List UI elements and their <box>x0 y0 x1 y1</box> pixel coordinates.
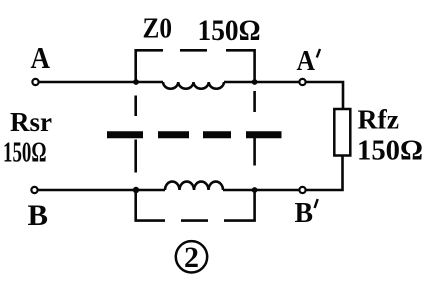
inductor L2 (bottom line of Z0 section) <box>165 182 223 190</box>
terminal B' <box>299 187 305 193</box>
node B' label <box>295 197 318 229</box>
terminal A' <box>299 79 305 85</box>
svg-text:150Ω: 150Ω <box>3 137 47 169</box>
svg-text:B: B <box>295 197 314 229</box>
svg-text:B: B <box>28 199 49 232</box>
terminal A <box>32 79 38 85</box>
svg-text:150Ω: 150Ω <box>357 135 423 167</box>
dashed box top-left corner <box>136 50 163 81</box>
wire coil L1 to terminal A' <box>224 81 299 84</box>
node A' label <box>297 45 321 77</box>
dashed box left side dashes <box>134 96 137 173</box>
dashed box bottom-left corner <box>136 191 165 221</box>
wire A' to resistor Rfz top <box>306 82 343 109</box>
junction dot top-right <box>252 79 258 85</box>
svg-text:150Ω: 150Ω <box>198 14 261 47</box>
terminal B <box>31 187 37 193</box>
svg-text:A: A <box>297 45 316 77</box>
dashed box bottom-right corner <box>224 191 255 221</box>
thick dashed center conductor line <box>107 131 282 138</box>
junction dot top-left <box>133 79 139 85</box>
wire B to coil L2 <box>38 189 165 192</box>
wire coil L2 to terminal B' <box>223 189 299 192</box>
svg-text:Rfz: Rfz <box>358 105 400 135</box>
wire A to coil L1 <box>39 81 163 84</box>
resistor Rfz <box>334 109 350 156</box>
dashed box bottom dash <box>181 219 208 222</box>
svg-text:Z0: Z0 <box>143 13 173 45</box>
svg-text:2: 2 <box>184 241 199 274</box>
svg-text:Rsr: Rsr <box>10 107 52 137</box>
dashed box top-right corner <box>226 50 255 81</box>
dashed box right side dashes <box>253 91 256 166</box>
svg-text:A: A <box>31 40 51 75</box>
junction dot bottom-right <box>252 187 258 193</box>
inductor L1 (top line of Z0 section) <box>163 82 224 89</box>
dashed box top dash <box>180 49 207 52</box>
junction dot bottom-left <box>133 187 139 193</box>
wire resistor Rfz bottom to terminal B' <box>306 156 343 191</box>
figure number circle (2) <box>176 241 207 274</box>
